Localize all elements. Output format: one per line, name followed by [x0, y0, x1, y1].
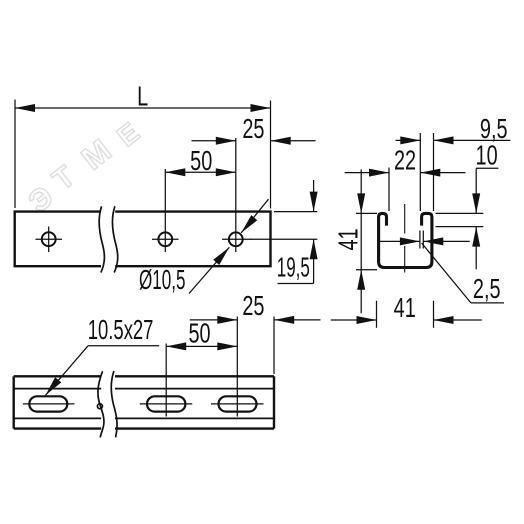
- dimension 10 upper line: [475, 168, 477, 213]
- dimension 25 bottom left segment: [190, 319, 238, 321]
- svg-text:10: 10: [476, 140, 498, 171]
- bottom view break squiggle 2: [111, 371, 117, 437]
- hole H1 vertical center line: [48, 227, 50, 253]
- dimension 25 bottom right segment: [274, 319, 320, 321]
- bottom bar horizontal line 2 right part: [115, 388, 274, 390]
- leader 10.5x27 arrow: [46, 377, 62, 395]
- top view break squiggle 2: [112, 206, 117, 272]
- top view bar right part: [115, 212, 270, 267]
- channel center line lower: [404, 246, 406, 273]
- svg-text:50: 50: [190, 146, 212, 177]
- dimension 22 left segment: [345, 172, 389, 174]
- bottom view bar right edge: [273, 376, 275, 428]
- svg-text:19,5: 19,5: [277, 252, 310, 283]
- slot S2: [147, 396, 185, 411]
- hole H1: [42, 232, 56, 246]
- hole H1 horizontal center line: [36, 238, 63, 240]
- leader dia10.5 lower segment: [189, 247, 229, 293]
- slot S3 vertical center line and extension: [236, 317, 238, 417]
- svg-text:41: 41: [394, 293, 416, 324]
- slot S1: [29, 396, 67, 411]
- dimension 41 height up arrow: [357, 270, 365, 290]
- extension line channel top edge right: [436, 212, 484, 214]
- dimension 19.5 lower line: [313, 239, 315, 283]
- svg-text:22: 22: [394, 145, 416, 176]
- bottom view break squiggle 1: [98, 371, 104, 437]
- dimension 19.5 shelf: [278, 283, 314, 285]
- dimension 25 bottom left arrow: [217, 316, 237, 324]
- dimension L line: [15, 107, 271, 109]
- channel center line upper: [404, 204, 406, 234]
- top view break squiggle 1: [99, 206, 104, 272]
- hole H2 vertical center line and extension: [164, 169, 166, 252]
- hole H2 horizontal center line: [152, 238, 179, 240]
- dimension 25 top right segment: [271, 140, 316, 142]
- dimension L right arrow: [251, 104, 271, 112]
- extension bar lip thickness left: [419, 231, 421, 249]
- dimension 50 top left arrow: [165, 168, 185, 176]
- dimension 41 width left segment: [331, 319, 377, 321]
- dimension 10 up arrow: [472, 227, 480, 247]
- bottom bar horizontal line 3 left part: [14, 417, 102, 419]
- dimension 10 down arrow: [472, 193, 480, 213]
- leader 2.5 shelf: [471, 302, 504, 304]
- slot S3 horizontal center line: [211, 403, 264, 405]
- dimension 50 bottom line: [166, 345, 237, 347]
- extension bar lip thickness right: [422, 231, 424, 249]
- dimension 41 width right segment: [434, 319, 482, 321]
- dimension 19.5 up arrow: [310, 239, 318, 259]
- dimension 25 top right arrow: [271, 137, 291, 145]
- hole H3 vertical center line and extension: [235, 138, 237, 252]
- leader dia10.5 upper arrow: [241, 215, 257, 233]
- bottom bar horizontal line 1 left part: [14, 375, 102, 377]
- dimension 10 lower line: [475, 227, 477, 270]
- dimension 9.5 left segment: [396, 139, 421, 141]
- dimension 41 width right arrow: [434, 316, 454, 324]
- dimension 25 bottom right arrow: [274, 316, 294, 324]
- bottom bar horizontal line 3 right part: [115, 417, 274, 419]
- hole H3: [229, 232, 243, 246]
- hole H2: [158, 232, 172, 246]
- leader dia10.5 upper segment: [241, 199, 268, 233]
- channel section profile: [379, 213, 432, 267]
- dimension 9.5 right arrow: [434, 136, 454, 144]
- svg-text:41: 41: [333, 228, 364, 250]
- dimension 9.5 left arrow: [400, 136, 420, 144]
- extension line lip bottom edge right: [436, 226, 484, 228]
- svg-text:L: L: [137, 81, 148, 112]
- extension line bottom bar right end: [273, 317, 275, 375]
- bottom view break squiggle loop: [97, 404, 102, 409]
- dimension 25 top left arrow: [216, 137, 236, 145]
- dimension 2.5 left segment: [377, 240, 420, 242]
- bottom bar horizontal line 1 right part: [115, 375, 274, 377]
- dimension L left arrow: [15, 104, 35, 112]
- dimension 9.5 right segment: [434, 139, 511, 141]
- dimension 2.5 left arrow: [400, 237, 420, 245]
- dimension 10 shelf: [476, 167, 498, 169]
- dimension 41 height down arrow: [357, 193, 365, 213]
- extension line channel right wall down: [433, 301, 435, 328]
- dimension 22 right segment: [420, 172, 465, 174]
- bottom view bar left edge: [12, 376, 14, 428]
- extension line bar top edge right: [274, 211, 317, 213]
- hole H3 horizontal center line: [222, 238, 252, 240]
- dimension 50 bottom left arrow: [166, 342, 186, 350]
- leader 2.5 diagonal: [422, 243, 471, 303]
- svg-text:Ø10,5: Ø10,5: [139, 265, 185, 296]
- extension line left lip inner edge: [388, 168, 390, 212]
- slot S2 vertical center line and extension: [165, 344, 167, 417]
- dimension 50 top line: [165, 171, 236, 173]
- extension line hole center right: [251, 238, 318, 240]
- extension line channel left wall down: [376, 301, 378, 328]
- leader 10.5x27 shelf: [88, 345, 159, 347]
- dimension 41 width left arrow: [357, 316, 377, 324]
- slot S3: [219, 396, 257, 411]
- extension line bar right end: [270, 101, 272, 209]
- svg-text:10.5x27: 10.5x27: [88, 315, 154, 346]
- dimension 50 top right arrow: [216, 168, 236, 176]
- extension line right wall outer edge: [433, 133, 435, 211]
- leader 10.5x27 line: [46, 346, 89, 396]
- dimension 2.5 right arrow: [423, 237, 443, 245]
- dimension 25 top left segment: [192, 140, 236, 142]
- dimension 50 bottom right arrow: [217, 342, 237, 350]
- svg-text:25: 25: [242, 114, 264, 145]
- dimension 19.5 upper line: [313, 180, 315, 212]
- bottom bar horizontal line 2 left part: [14, 388, 102, 390]
- dimension 41 height line: [360, 170, 362, 314]
- bottom bar horizontal line 4 left part: [14, 427, 102, 429]
- extension line bar left end: [14, 100, 16, 209]
- dimension 19.5 down arrow: [310, 192, 318, 212]
- dimension 22 right arrow: [420, 169, 440, 177]
- dimension 22 left arrow: [369, 169, 389, 177]
- extension line right lip inner edge: [419, 133, 421, 211]
- slot S2 horizontal center line: [140, 403, 193, 405]
- leader dia10.5 lower arrow: [213, 247, 229, 265]
- slot S1 horizontal center line: [23, 403, 75, 405]
- extension line channel bottom edge left: [356, 269, 377, 271]
- svg-text:2,5: 2,5: [473, 274, 501, 305]
- top view bar left part: [15, 212, 101, 267]
- svg-text:25: 25: [242, 291, 264, 322]
- watermark letters ETM diagonal: [23, 117, 145, 220]
- bottom bar horizontal line 4 right part: [115, 427, 274, 429]
- extension line channel top edge left: [356, 212, 377, 214]
- dimension 2.5 right segment: [423, 240, 469, 242]
- svg-text:50: 50: [188, 318, 210, 349]
